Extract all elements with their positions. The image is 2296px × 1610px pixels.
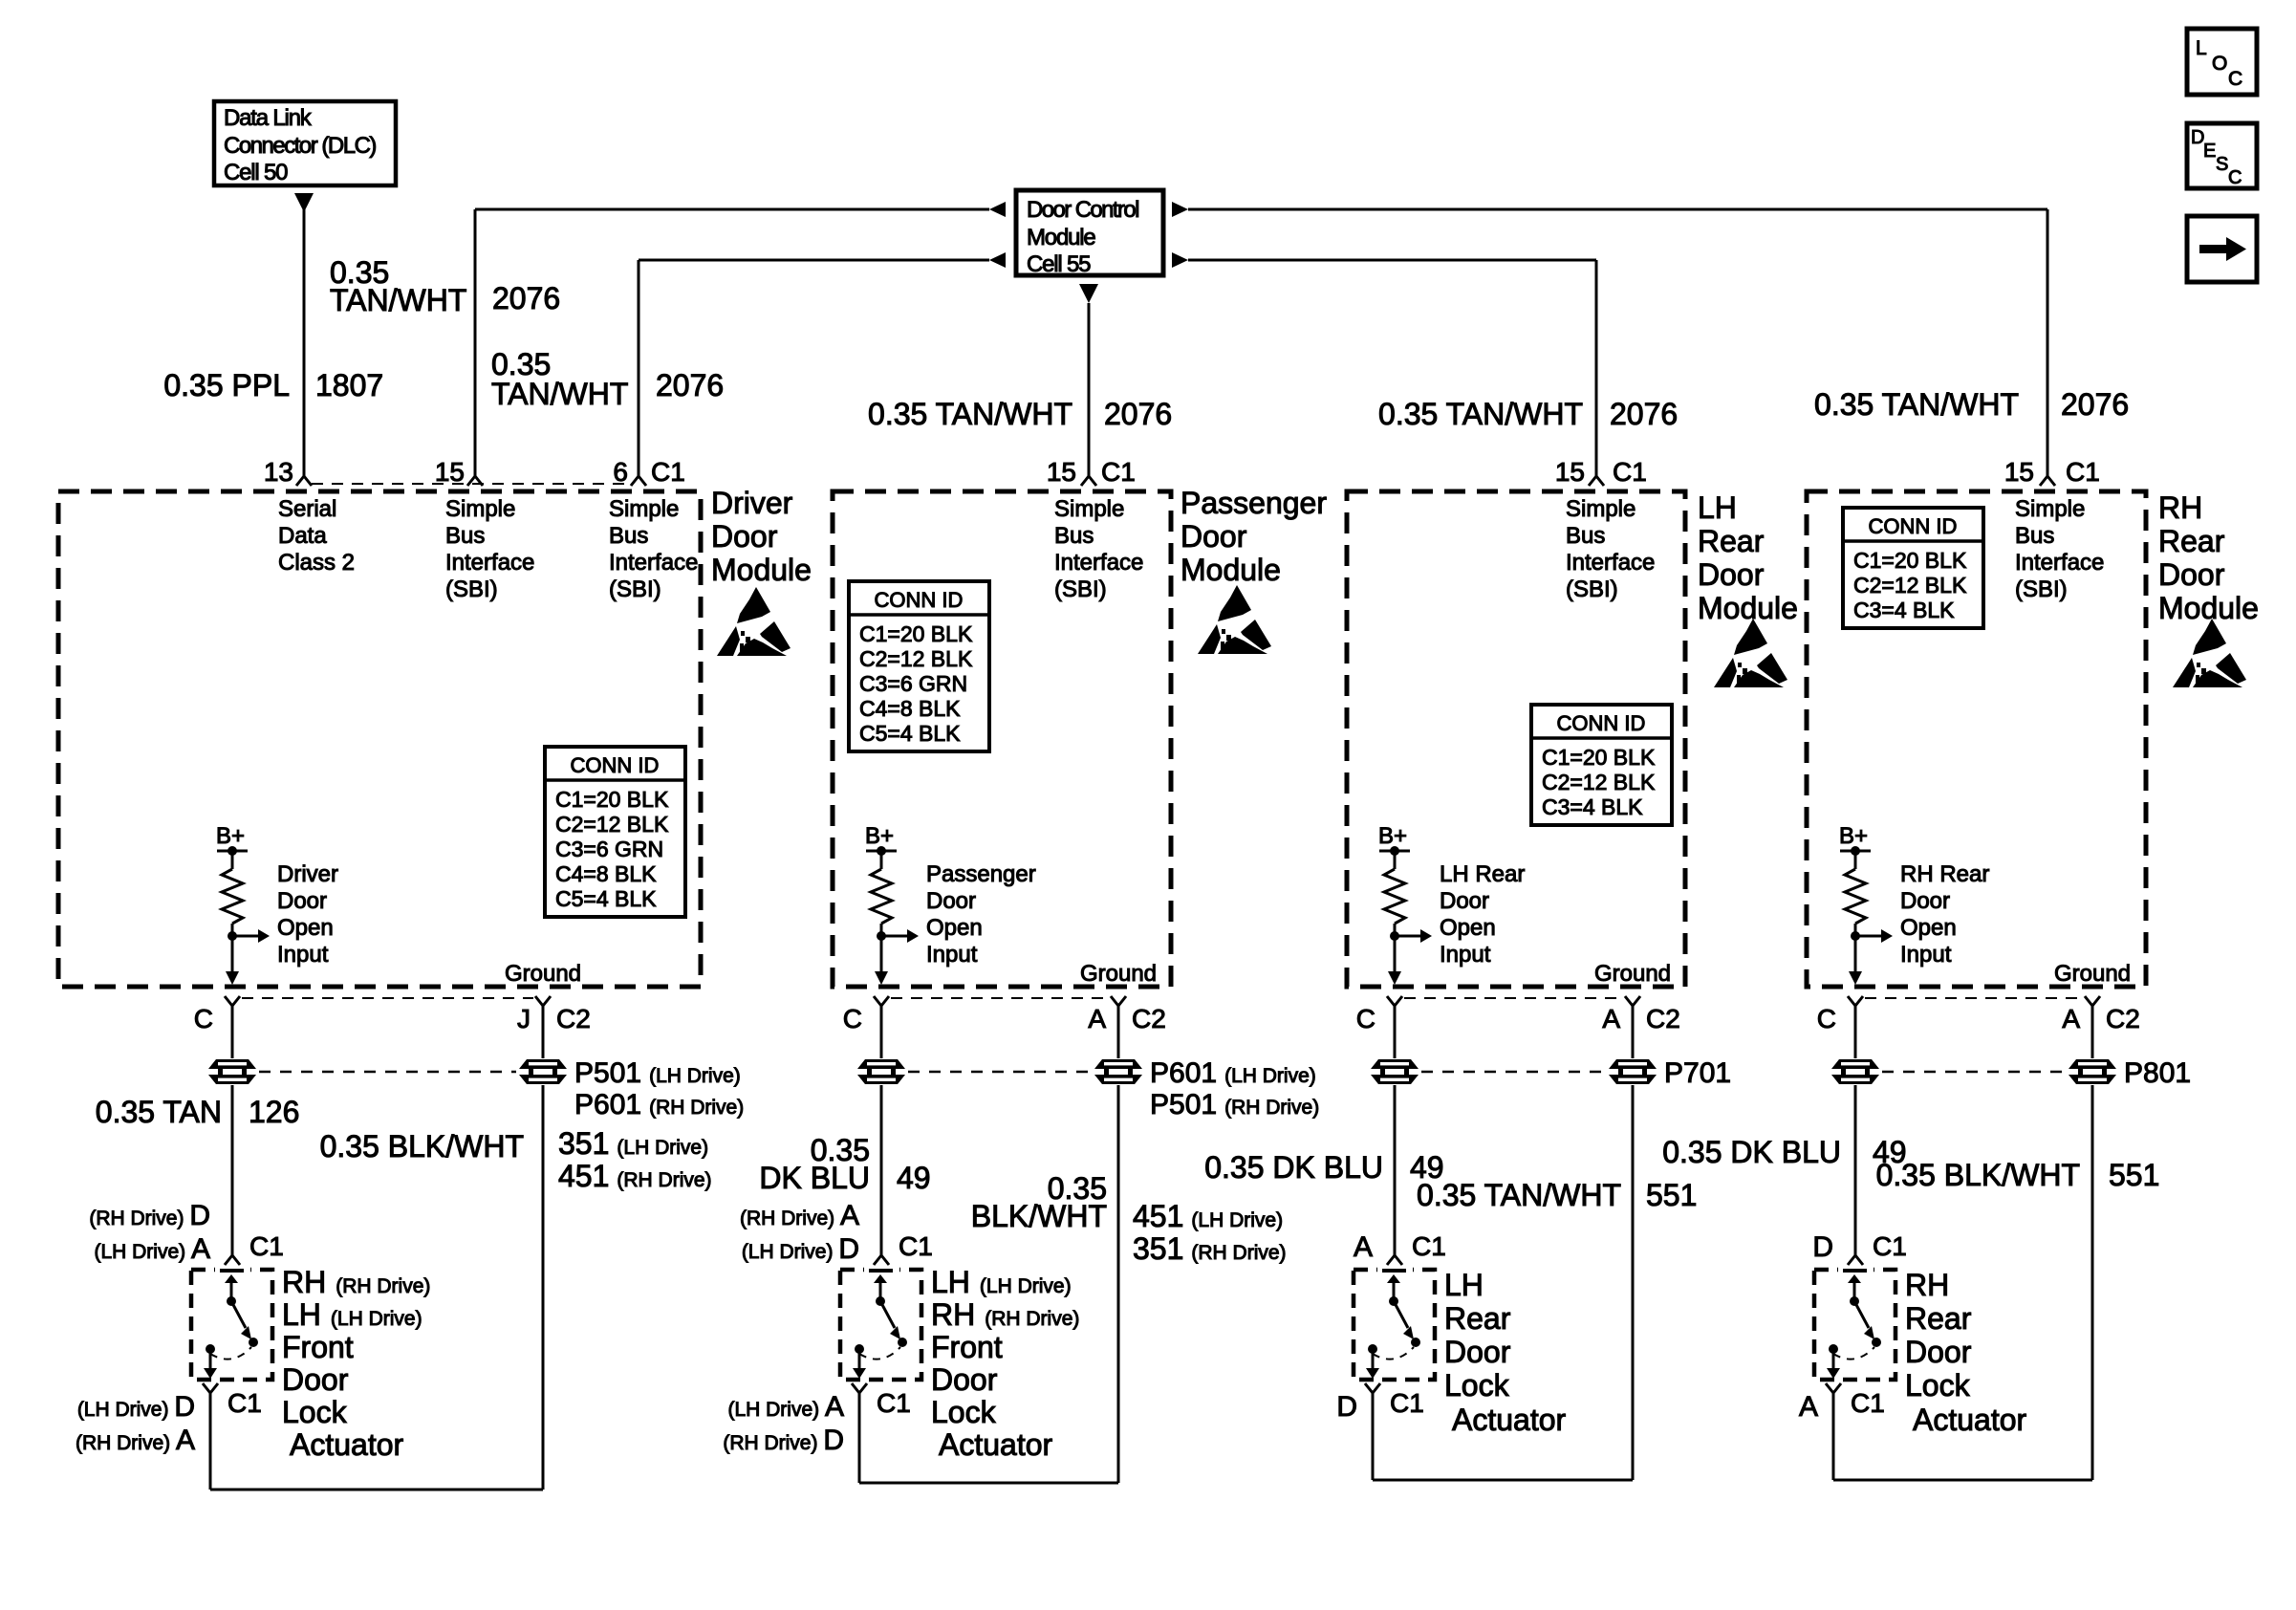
svg-text:C1=20 BLK: C1=20 BLK: [555, 787, 669, 812]
wire 2076 vertical to RH rear pin 15: [2047, 209, 2049, 476]
svg-text:Interface: Interface: [2015, 550, 2104, 576]
Driver Door switch arm upper shaft: [230, 1281, 233, 1301]
svg-text:C1=20 BLK: C1=20 BLK: [859, 621, 973, 646]
svg-text:C2: C2: [556, 1004, 591, 1033]
svg-text:Data Link: Data Link: [224, 105, 313, 131]
Driver pin 15 fork: [467, 476, 483, 486]
Passenger Door open input branch wire: [881, 935, 907, 938]
svg-text:C: C: [1817, 1004, 1836, 1033]
svg-text:P701: P701: [1664, 1057, 1731, 1089]
Passenger Door ground wire vertical: [1117, 1006, 1120, 1483]
svg-text:15: 15: [1047, 457, 1076, 487]
svg-text:15: 15: [1555, 457, 1585, 487]
svg-text:A: A: [1799, 1391, 1818, 1423]
svg-text:Door: Door: [931, 1362, 998, 1397]
svg-text:551: 551: [1646, 1178, 1697, 1212]
Driver Door wire resistor to junction: [231, 924, 234, 936]
svg-text:CONN ID: CONN ID: [1557, 711, 1646, 735]
svg-text:Ground: Ground: [505, 961, 581, 987]
LH Rear Door switch travel dashed arc: [1373, 1347, 1414, 1360]
svg-text:0.35 DK BLU: 0.35 DK BLU: [1204, 1150, 1383, 1185]
svg-text:2076: 2076: [1610, 397, 1678, 431]
RH Rear Door switch fixed contact bar: [1843, 1269, 1867, 1273]
svg-text:Rear: Rear: [1444, 1301, 1511, 1336]
LH Rear Door CONN ID box: [1531, 705, 1672, 825]
svg-text:0.35 BLK/WHT: 0.35 BLK/WHT: [320, 1129, 524, 1164]
Driver Door wire B+ to resistor: [231, 851, 234, 869]
RH Rear Door CONN ID divider: [1843, 539, 1983, 543]
LH Rear Door switch down shaft: [1372, 1349, 1375, 1369]
LH Rear Door connector face dashed line: [1404, 997, 1623, 999]
LH Rear Door switch swing arm: [1394, 1301, 1408, 1328]
Passenger Door switch fixed contact bar: [869, 1269, 893, 1273]
svg-text:15: 15: [2004, 457, 2034, 487]
svg-text:A: A: [1602, 1004, 1620, 1033]
RH Rear Door pin C fork: [1848, 996, 1863, 1006]
RH Rear Door module dashed box: [1807, 491, 2146, 987]
LH Rear Door inline connector P701: [1607, 1058, 1658, 1085]
svg-text:0.35 TAN/WHT: 0.35 TAN/WHT: [1417, 1178, 1621, 1212]
svg-text:Door: Door: [2158, 557, 2225, 592]
Driver Door actuator return wire horizontal: [210, 1489, 543, 1491]
RH Rear Door connector face dashed line: [1865, 997, 2083, 999]
RH Rear Door B+ junction dot: [1851, 846, 1860, 856]
svg-text:C1: C1: [899, 1231, 933, 1261]
svg-text:Door: Door: [926, 888, 976, 914]
arrow from DLC down: [294, 193, 314, 212]
RH Rear Door B+ bar: [1840, 850, 1871, 853]
arrow legend glyph: [2199, 245, 2226, 253]
LH Rear Door switch pivot dot: [1389, 1296, 1398, 1306]
svg-text:C1: C1: [1851, 1388, 1885, 1418]
DCM bottom arrow: [1079, 284, 1098, 303]
svg-text:2076: 2076: [492, 281, 560, 315]
RH Rear Door switch arm upper shaft: [1853, 1281, 1856, 1301]
svg-text:Lock: Lock: [931, 1395, 997, 1429]
svg-text:Module: Module: [2158, 591, 2259, 625]
svg-text:Ground: Ground: [1080, 961, 1157, 987]
Passenger Door pin C fork: [874, 996, 889, 1006]
LH Rear Door junction dot: [1390, 931, 1399, 941]
LH Rear Door pin C fork: [1387, 996, 1402, 1006]
svg-text:TAN/WHT: TAN/WHT: [491, 377, 628, 411]
RH Rear Door switch swing arrowhead: [1864, 1326, 1874, 1339]
svg-text:0.35 TAN/WHT: 0.35 TAN/WHT: [868, 397, 1072, 431]
Driver Door connector face dashed line: [242, 997, 533, 999]
svg-text:L: L: [2196, 37, 2207, 59]
Driver Door wire junction down: [231, 936, 234, 972]
Driver Door switch pivot dot: [227, 1296, 236, 1306]
Passenger Door switch pivot dot: [876, 1296, 885, 1306]
svg-text:O: O: [2212, 53, 2227, 75]
svg-text:A: A: [1088, 1004, 1106, 1033]
svg-text:13: 13: [264, 457, 293, 487]
Passenger Door door open input resistor: [871, 869, 892, 924]
svg-text:Module: Module: [711, 553, 812, 587]
RH rear pin 15 fork: [2040, 476, 2055, 486]
LH Rear Door switch arm upper shaft: [1393, 1281, 1396, 1301]
Passenger Door B+ bar: [866, 850, 897, 853]
svg-text:C1: C1: [651, 457, 685, 487]
Passenger Door wire resistor to junction: [880, 924, 883, 936]
Passenger Door connector pair dashed link: [908, 1071, 1092, 1074]
RH Rear Door open input right arrow: [1881, 929, 1893, 943]
svg-text:Data: Data: [278, 523, 327, 549]
svg-text:Input: Input: [926, 942, 978, 968]
svg-text:6: 6: [613, 457, 628, 487]
svg-text:Interface: Interface: [1054, 550, 1143, 576]
Driver pin 6 fork: [631, 476, 646, 486]
svg-text:Input: Input: [1440, 942, 1491, 968]
Passenger Door connector face dashed line: [891, 997, 1109, 999]
svg-text:DK BLU: DK BLU: [759, 1161, 870, 1195]
Driver Door open input right arrow: [258, 929, 270, 943]
Passenger Door CONN ID divider: [849, 613, 989, 617]
RH Rear Door door lock actuator dashed box: [1814, 1270, 1895, 1380]
svg-text:Module: Module: [1180, 553, 1281, 587]
svg-text:BLK/WHT: BLK/WHT: [971, 1199, 1107, 1233]
LH Rear Door CONN ID divider: [1531, 736, 1672, 740]
LH Rear Door switch lower-right dot: [1411, 1338, 1420, 1347]
Passenger Door switch lower-right dot: [898, 1338, 907, 1347]
LH Rear Door B+ bar: [1379, 850, 1410, 853]
LH Rear Door door lock actuator dashed box: [1354, 1270, 1435, 1380]
wire 2076 vertical to pin 6 (driver): [638, 260, 640, 476]
svg-text:Rear: Rear: [1905, 1301, 1972, 1336]
Passenger Door switch down shaft: [858, 1349, 861, 1369]
RH Rear Door switch lower-left dot: [1829, 1344, 1838, 1354]
Driver Door module dashed box: [58, 491, 701, 987]
svg-text:Door: Door: [1440, 888, 1489, 914]
svg-text:RH: RH: [2158, 490, 2202, 525]
Driver Door connector pair dashed link: [259, 1071, 516, 1074]
DCM upper-right arrow: [1172, 202, 1188, 217]
Driver Door inline connector P501: [517, 1058, 569, 1085]
Passenger Door down arrow to ground: [875, 971, 888, 985]
wire 2076 horizontal to DCM lower-left: [639, 259, 989, 262]
RH Rear Door switch down shaft: [1832, 1349, 1835, 1369]
svg-text:Open: Open: [1900, 915, 1957, 941]
svg-text:D: D: [1336, 1391, 1357, 1423]
svg-text:C1: C1: [2066, 457, 2100, 487]
RH Rear Door ground wire vertical: [2091, 1006, 2094, 1480]
svg-text:C1: C1: [249, 1231, 284, 1261]
Driver Door actuator return wire vertical: [209, 1393, 212, 1490]
Passenger Door door lock actuator dashed box: [840, 1270, 921, 1380]
LH Rear Door open input branch wire: [1395, 935, 1420, 938]
svg-text:C2=12 BLK: C2=12 BLK: [1542, 770, 1656, 794]
svg-text:Passenger: Passenger: [926, 861, 1036, 887]
svg-text:Door: Door: [1900, 888, 1950, 914]
svg-text:49: 49: [897, 1161, 931, 1195]
LH Rear Door lock wire vertical: [1394, 1006, 1397, 1255]
Passenger Door module dashed box: [833, 491, 1171, 987]
svg-text:Serial: Serial: [278, 496, 336, 522]
svg-text:Input: Input: [277, 942, 329, 968]
Passenger Door lock wire vertical: [880, 1006, 883, 1255]
LH Rear Door open input right arrow: [1420, 929, 1432, 943]
svg-text:Bus: Bus: [1566, 523, 1605, 549]
svg-text:A: A: [1354, 1231, 1373, 1263]
RH Rear Door connector pair dashed link: [1882, 1071, 2066, 1074]
LOC legend box: [2187, 29, 2257, 95]
svg-text:S: S: [2216, 154, 2228, 175]
wire 1807 from DLC to pin 13: [303, 208, 306, 476]
Driver Door CONN ID box: [545, 747, 685, 917]
RH Rear Door wire B+ to resistor: [1854, 851, 1857, 869]
Passenger Door switch down arrowhead: [853, 1368, 866, 1379]
svg-text:Front: Front: [282, 1330, 354, 1364]
RH Rear Door wire resistor to junction: [1854, 924, 1857, 936]
svg-text:C2=12 BLK: C2=12 BLK: [1853, 573, 1967, 598]
LH rear ESD symbol: [1714, 619, 1787, 687]
LH Rear Door ground pin fork: [1625, 996, 1640, 1006]
wire 2076 horizontal DCM to LH rear: [1188, 259, 1596, 262]
svg-text:Interface: Interface: [1566, 550, 1655, 576]
svg-text:Door: Door: [282, 1362, 349, 1397]
Driver Door junction dot: [227, 931, 237, 941]
svg-text:126: 126: [249, 1095, 299, 1129]
svg-text:C3=6 GRN: C3=6 GRN: [859, 671, 967, 696]
Driver Door switch travel dashed arc: [210, 1347, 251, 1360]
svg-text:Open: Open: [926, 915, 983, 941]
svg-text:Simple: Simple: [445, 496, 515, 522]
svg-text:CONN ID: CONN ID: [571, 753, 660, 777]
svg-text:Cell 50: Cell 50: [224, 160, 288, 185]
svg-text:LH Rear: LH Rear: [1440, 861, 1525, 887]
Passenger Door switch travel dashed arc: [859, 1347, 900, 1360]
Passenger Door switch lower-left dot: [855, 1344, 864, 1354]
LH Rear Door actuator return wire vertical: [1372, 1393, 1375, 1480]
LH Rear Door door open input resistor: [1384, 869, 1405, 924]
svg-text:C2: C2: [2106, 1004, 2140, 1033]
svg-text:Bus: Bus: [2015, 523, 2054, 549]
svg-text:Driver: Driver: [277, 861, 338, 887]
svg-text:Driver: Driver: [711, 486, 793, 520]
Driver top connector face dashed line: [312, 483, 631, 485]
svg-text:Simple: Simple: [2015, 496, 2085, 522]
svg-text:C1: C1: [1613, 457, 1647, 487]
wire 2076 vertical to LH rear pin 15: [1595, 260, 1598, 476]
RH Rear Door inline connector (lock wire): [1830, 1058, 1881, 1085]
svg-text:0.35 BLK/WHT: 0.35 BLK/WHT: [1876, 1158, 2080, 1192]
svg-text:RH Rear: RH Rear: [1900, 861, 1989, 887]
RH Rear Door lock wire vertical: [1854, 1006, 1857, 1255]
Driver Door inline connector (lock wire): [206, 1058, 258, 1085]
svg-text:LH: LH: [1444, 1268, 1484, 1302]
svg-text:C1=20 BLK: C1=20 BLK: [1542, 745, 1656, 770]
svg-text:A: A: [2062, 1004, 2080, 1033]
RH rear ESD symbol: [2173, 619, 2246, 687]
svg-text:Rear: Rear: [1698, 524, 1765, 558]
Driver Door B+ junction dot: [227, 846, 237, 856]
svg-text:Actuator: Actuator: [1913, 1403, 2027, 1437]
svg-text:C1: C1: [1873, 1231, 1907, 1261]
svg-text:(SBI): (SBI): [2015, 577, 2068, 602]
svg-text:C1: C1: [1101, 457, 1136, 487]
RH Rear Door switch up arrow: [1848, 1274, 1861, 1283]
RH Rear Door junction dot: [1851, 931, 1860, 941]
Driver Door actuator top pin fork: [225, 1255, 240, 1265]
svg-text:Lock: Lock: [282, 1395, 348, 1429]
svg-text:C: C: [194, 1004, 213, 1033]
LH rear pin 15 fork: [1589, 476, 1604, 486]
svg-text:Passenger: Passenger: [1180, 486, 1327, 520]
svg-text:C3=6 GRN: C3=6 GRN: [555, 837, 663, 861]
LH Rear Door wire junction down: [1394, 936, 1397, 972]
svg-text:C2=12 BLK: C2=12 BLK: [859, 646, 973, 671]
DCM upper-left arrow: [989, 202, 1006, 217]
svg-text:C5=4 BLK: C5=4 BLK: [859, 721, 961, 746]
Door Control Module box: [1016, 190, 1163, 275]
RH Rear Door actuator return wire vertical: [1832, 1393, 1835, 1480]
svg-text:C1: C1: [877, 1388, 911, 1418]
Passenger Door wire junction down: [880, 936, 883, 972]
RH Rear Door actuator return wire horizontal: [1833, 1479, 2092, 1482]
Passenger Door wire B+ to resistor: [880, 851, 883, 869]
svg-text:2076: 2076: [1104, 397, 1172, 431]
Passenger Door switch swing arm: [880, 1301, 895, 1328]
svg-text:Ground: Ground: [1594, 961, 1671, 987]
svg-text:Simple: Simple: [609, 496, 679, 522]
RH Rear Door switch down arrowhead: [1827, 1368, 1840, 1379]
LH Rear Door module dashed box: [1347, 491, 1685, 987]
Driver Door switch down shaft: [209, 1349, 212, 1369]
LH Rear Door switch lower-left dot: [1368, 1344, 1377, 1354]
svg-text:Actuator: Actuator: [1452, 1403, 1567, 1437]
svg-text:Input: Input: [1900, 942, 1952, 968]
svg-text:D: D: [1812, 1231, 1833, 1263]
LH Rear Door switch fixed contact bar: [1382, 1269, 1406, 1273]
svg-text:C: C: [1356, 1004, 1375, 1033]
svg-text:RH: RH: [1905, 1268, 1949, 1302]
Passenger pin 15 fork: [1081, 476, 1096, 486]
svg-text:J: J: [517, 1004, 531, 1033]
svg-text:Front: Front: [931, 1330, 1003, 1364]
Driver Door switch fixed contact bar: [220, 1269, 244, 1273]
DESC legend box: [2187, 123, 2257, 188]
Driver Door switch swing arm: [231, 1301, 246, 1328]
Passenger Door inline connector P601: [1093, 1058, 1144, 1085]
arrow legend box: [2187, 216, 2257, 282]
svg-text:Interface: Interface: [609, 550, 698, 576]
Passenger Door actuator top pin fork: [874, 1255, 889, 1265]
svg-text:C4=8 BLK: C4=8 BLK: [859, 696, 961, 721]
svg-text:Open: Open: [1440, 915, 1496, 941]
wire 2076 from DCM bottom to passenger pin 15: [1088, 303, 1091, 476]
Driver Door switch down arrowhead: [204, 1368, 217, 1379]
wire 2076 vertical to pin 15 (driver): [474, 209, 477, 476]
svg-text:Bus: Bus: [609, 523, 648, 549]
Driver Door door lock actuator dashed box: [191, 1270, 272, 1380]
svg-text:B+: B+: [1378, 823, 1407, 849]
svg-text:LH: LH: [1698, 490, 1737, 525]
svg-text:(SBI): (SBI): [609, 577, 661, 602]
svg-text:E: E: [2203, 141, 2216, 162]
LH Rear Door inline connector (lock wire): [1369, 1058, 1420, 1085]
Driver Door switch lower-left dot: [206, 1344, 215, 1354]
Driver Door B+ bar: [217, 850, 248, 853]
svg-text:Class 2: Class 2: [278, 550, 355, 576]
Driver Door door open input resistor: [222, 869, 243, 924]
svg-text:551: 551: [2109, 1158, 2159, 1192]
svg-text:Module: Module: [1027, 225, 1095, 250]
svg-text:Door: Door: [711, 519, 778, 554]
Passenger ESD symbol: [1198, 585, 1271, 654]
svg-text:1807: 1807: [315, 368, 383, 402]
svg-text:0.35 PPL: 0.35 PPL: [163, 368, 290, 402]
svg-text:0.35 TAN/WHT: 0.35 TAN/WHT: [1814, 387, 2019, 422]
LH Rear Door actuator bottom pin fork: [1365, 1383, 1380, 1393]
svg-text:C1: C1: [227, 1388, 262, 1418]
svg-text:0.35 TAN: 0.35 TAN: [96, 1095, 222, 1129]
svg-text:Simple: Simple: [1054, 496, 1124, 522]
LH Rear Door switch swing arrowhead: [1403, 1326, 1414, 1339]
Passenger Door open input right arrow: [907, 929, 919, 943]
svg-text:(SBI): (SBI): [445, 577, 498, 602]
RH Rear Door switch travel dashed arc: [1833, 1347, 1874, 1360]
DCM lower-left arrow: [989, 252, 1006, 268]
svg-text:C1: C1: [1390, 1388, 1424, 1418]
svg-text:C3=4 BLK: C3=4 BLK: [1853, 598, 1955, 622]
Passenger Door switch arm upper shaft: [879, 1281, 882, 1301]
LH Rear Door B+ junction dot: [1390, 846, 1399, 856]
LH Rear Door connector pair dashed link: [1421, 1071, 1606, 1074]
Passenger Door ground pin fork: [1111, 996, 1126, 1006]
svg-text:Door: Door: [1905, 1335, 1972, 1369]
Passenger Door actuator return wire horizontal: [859, 1482, 1118, 1485]
Passenger Door switch up arrow: [874, 1274, 887, 1283]
Driver pin 13 fork: [296, 476, 312, 486]
svg-text:C: C: [2228, 68, 2242, 90]
Driver Door switch up arrow: [225, 1274, 238, 1283]
svg-text:C2=12 BLK: C2=12 BLK: [555, 812, 669, 837]
svg-text:C2: C2: [1646, 1004, 1680, 1033]
RH Rear Door switch lower-right dot: [1872, 1338, 1881, 1347]
svg-text:0.35 DK BLU: 0.35 DK BLU: [1662, 1135, 1841, 1169]
svg-text:B+: B+: [216, 823, 245, 849]
svg-text:Bus: Bus: [1054, 523, 1094, 549]
svg-text:2076: 2076: [2061, 387, 2129, 422]
Driver Door switch lower-right dot: [249, 1338, 258, 1347]
svg-text:CONN ID: CONN ID: [1869, 514, 1958, 538]
LH Rear Door actuator return wire horizontal: [1373, 1479, 1633, 1482]
svg-text:Door Control: Door Control: [1027, 197, 1138, 223]
LH Rear Door wire B+ to resistor: [1394, 851, 1397, 869]
RH Rear Door actuator bottom pin fork: [1826, 1383, 1841, 1393]
Driver Door down arrow to ground: [226, 971, 239, 985]
svg-text:Lock: Lock: [1444, 1368, 1510, 1403]
Driver Door open input branch wire: [232, 935, 258, 938]
Passenger Door inline connector (lock wire): [856, 1058, 907, 1085]
Passenger Door switch swing arrowhead: [890, 1326, 900, 1339]
Driver ESD symbol: [717, 587, 791, 656]
RH Rear Door inline connector P801: [2067, 1058, 2118, 1085]
svg-text:Module: Module: [1698, 591, 1798, 625]
svg-text:Door: Door: [1180, 519, 1247, 554]
Driver Door pin C fork: [225, 996, 240, 1006]
svg-text:C5=4 BLK: C5=4 BLK: [555, 886, 657, 911]
LH Rear Door ground wire vertical: [1632, 1006, 1635, 1480]
svg-text:Door: Door: [1444, 1335, 1511, 1369]
svg-text:C1: C1: [1412, 1231, 1446, 1261]
svg-text:B+: B+: [1839, 823, 1868, 849]
RH Rear Door CONN ID box: [1843, 508, 1983, 628]
svg-text:Lock: Lock: [1905, 1368, 1971, 1403]
Driver Door actuator bottom pin fork: [203, 1383, 218, 1393]
Driver Door ground wire vertical: [542, 1006, 545, 1490]
wire 2076 horizontal to DCM upper-left: [475, 208, 989, 211]
